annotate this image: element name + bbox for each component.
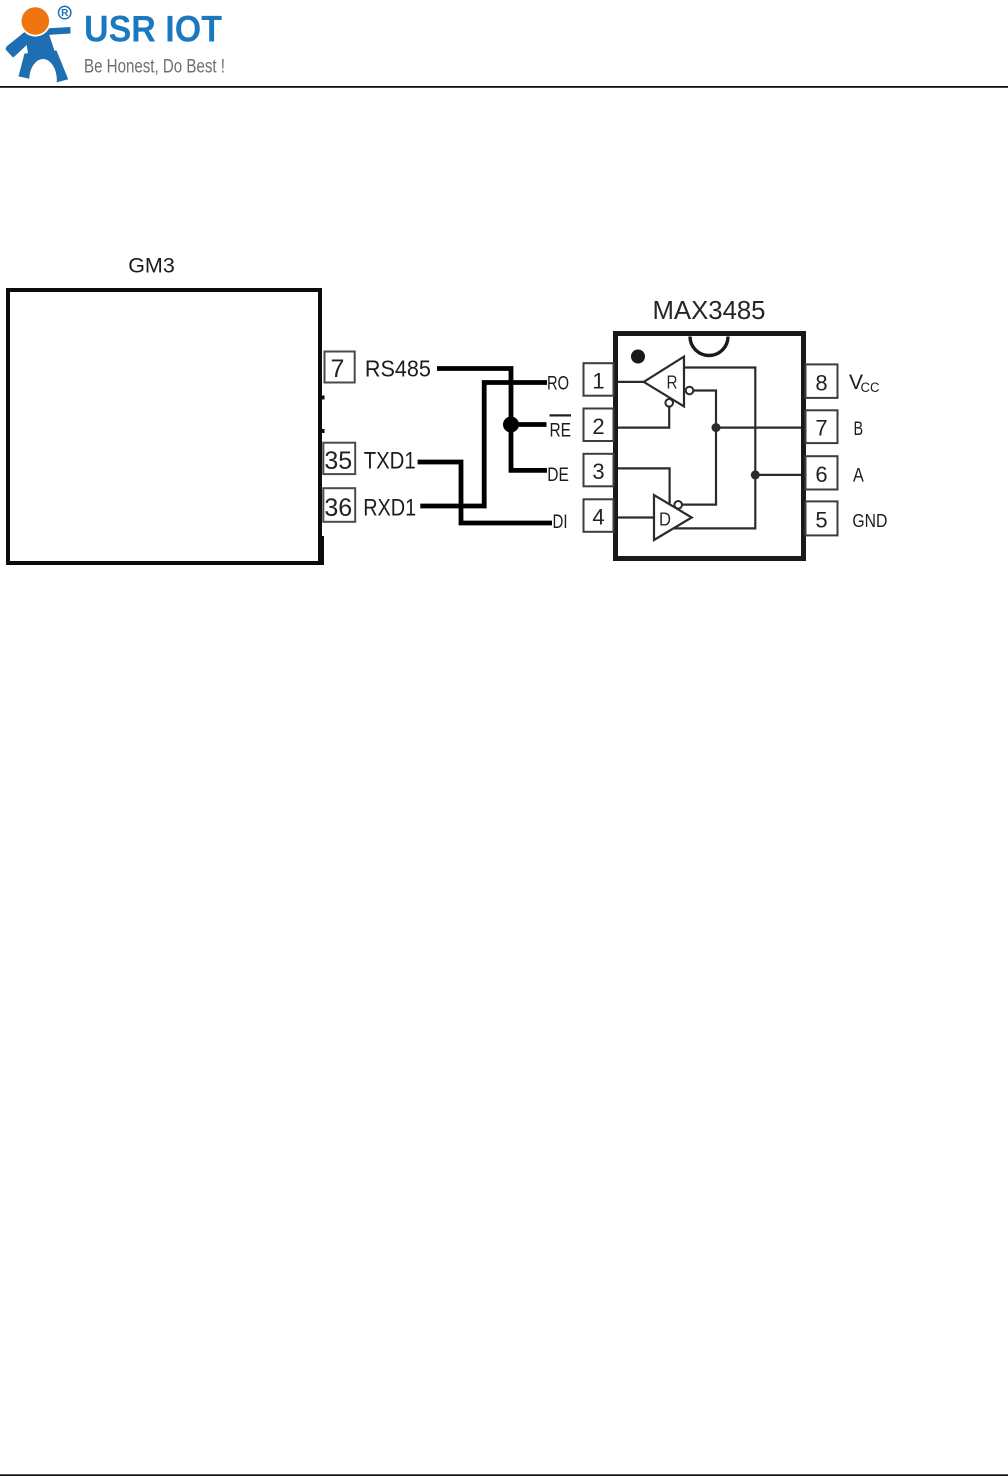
- svg-text:8: 8: [815, 370, 827, 395]
- svg-text:GND: GND: [852, 510, 887, 531]
- svg-text:R: R: [667, 373, 678, 393]
- svg-text:MAX3485: MAX3485: [653, 295, 766, 325]
- svg-text:R: R: [61, 8, 69, 19]
- svg-text:6: 6: [815, 462, 827, 487]
- svg-text:RXD1: RXD1: [363, 495, 416, 522]
- svg-text:7: 7: [815, 416, 827, 441]
- svg-text:D: D: [659, 510, 671, 530]
- svg-text:36: 36: [324, 494, 352, 522]
- svg-text:5: 5: [815, 507, 827, 532]
- svg-text:DE: DE: [547, 464, 569, 486]
- svg-text:DI: DI: [553, 511, 568, 533]
- svg-text:USR IOT: USR IOT: [84, 9, 222, 50]
- svg-text:3: 3: [592, 459, 604, 484]
- svg-text:RE: RE: [550, 419, 572, 441]
- svg-text:A: A: [853, 465, 864, 487]
- svg-text:RO: RO: [547, 373, 569, 395]
- svg-text:GM3: GM3: [128, 254, 175, 278]
- svg-text:Be Honest, Do Best !: Be Honest, Do Best !: [84, 57, 225, 78]
- svg-text:7: 7: [331, 355, 345, 383]
- svg-text:CC: CC: [861, 380, 880, 395]
- svg-text:35: 35: [324, 447, 352, 475]
- svg-text:2: 2: [592, 414, 604, 439]
- svg-text:RS485: RS485: [365, 355, 431, 381]
- svg-text:4: 4: [592, 505, 604, 530]
- svg-text:1: 1: [592, 369, 604, 394]
- svg-text:B: B: [854, 418, 864, 440]
- svg-text:TXD1: TXD1: [364, 448, 416, 475]
